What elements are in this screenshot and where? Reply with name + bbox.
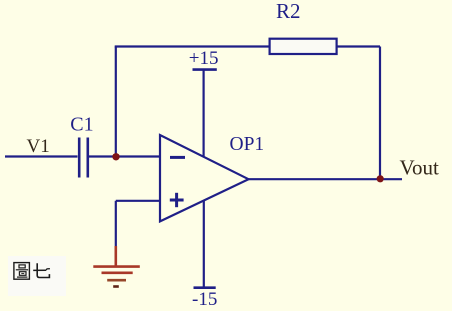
power +15 [193, 70, 217, 157]
wire V1 input [5, 155, 78, 157]
figure label background patch [8, 256, 66, 296]
wire non-inverting input [116, 200, 160, 202]
wire R2 to output riser [337, 45, 380, 47]
svg-text:Vout: Vout [400, 156, 439, 180]
power -15 [194, 200, 216, 288]
ground [93, 246, 140, 273]
node output junction [377, 175, 384, 182]
node junction C1/feedback [112, 153, 119, 160]
svg-text:C1: C1 [70, 114, 93, 136]
wire C1 to op-amp inverting input [89, 155, 160, 157]
wire op-amp output [247, 178, 402, 180]
wire feedback top horizontal [115, 45, 270, 47]
wire feedback vertical riser [115, 47, 117, 157]
svg-text:+15: +15 [189, 48, 219, 69]
wire output vertical riser [379, 47, 381, 180]
svg-text:OP1: OP1 [230, 134, 265, 155]
figure label 圖七 [14, 263, 50, 280]
svg-text:R2: R2 [276, 0, 301, 23]
op-amp non-inverting input symbol [170, 193, 184, 207]
capacitor C1 [79, 138, 88, 178]
svg-text:V1: V1 [27, 136, 50, 157]
op-amp OP1 [160, 135, 249, 221]
svg-text:-15: -15 [192, 289, 217, 310]
resistor R2 [270, 39, 337, 54]
wire ground stem [115, 201, 117, 247]
op-amp inverting input symbol [170, 156, 185, 159]
